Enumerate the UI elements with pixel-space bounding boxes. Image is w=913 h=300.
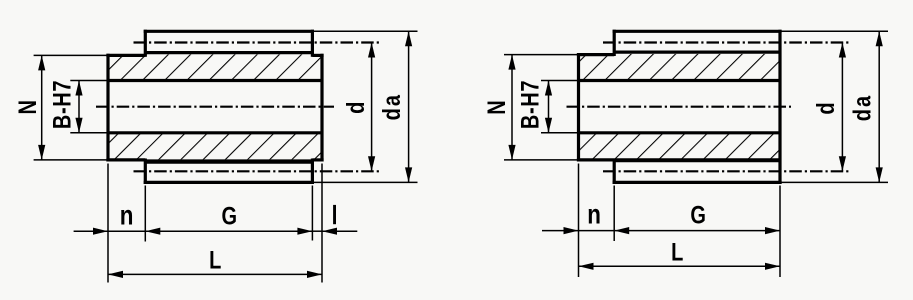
- bore top line: [108, 79, 322, 82]
- svg-text:N: N: [14, 100, 42, 114]
- reference line d top right: [603, 41, 851, 43]
- rim bottom band tip line right: [613, 181, 782, 184]
- extension line G and L right right: [779, 186, 781, 278]
- rim top band left edge: [144, 30, 147, 57]
- label B-H7: [48, 80, 76, 129]
- dimension line d right: [839, 43, 846, 172]
- label da: [378, 93, 406, 120]
- svg-text:G: G: [690, 201, 706, 229]
- reference line d bottom: [134, 170, 382, 172]
- gear right end face right: [778, 30, 781, 184]
- dimension line L right: [579, 263, 781, 270]
- rim top band root line right: [614, 50, 780, 53]
- label n right: [587, 199, 601, 230]
- hub outer surface top segment right: [577, 53, 614, 56]
- rim top band right edge: [311, 30, 314, 57]
- label B-H7 right: [516, 80, 544, 129]
- extension line N top: [34, 54, 108, 56]
- extension line da bottom: [312, 181, 417, 183]
- svg-text:N: N: [483, 100, 511, 114]
- hub outer surface top left segment: [106, 54, 145, 57]
- extension line N bottom right: [504, 159, 579, 161]
- hub bottom hatched section: [108, 134, 322, 159]
- hub left end face: [106, 54, 109, 162]
- rim bottom band root line right: [614, 158, 780, 162]
- reference line d top: [134, 41, 382, 43]
- rim bottom band right edge: [311, 159, 314, 185]
- svg-text:da: da: [378, 93, 406, 120]
- dimension line d: [368, 43, 375, 172]
- hub outer surface top right segment: [312, 54, 323, 57]
- label l: [333, 205, 336, 224]
- label L right: [671, 238, 683, 266]
- rim bottom band root line: [145, 159, 312, 163]
- extension line B-H7 top: [70, 80, 108, 82]
- svg-text:B-H7: B-H7: [516, 80, 544, 129]
- hub outer surface bottom segment right: [577, 158, 614, 161]
- hub bottom hatched section right: [579, 134, 781, 159]
- label N right: [483, 100, 511, 114]
- bore top line right: [579, 79, 781, 82]
- svg-text:n: n: [120, 200, 134, 231]
- svg-text:d: d: [342, 102, 370, 114]
- svg-text:G: G: [222, 202, 238, 230]
- rim bottom band left edge: [144, 159, 147, 185]
- bore bottom line: [108, 131, 322, 134]
- svg-text:L: L: [671, 238, 683, 266]
- extension line da top: [312, 30, 417, 32]
- label L: [209, 247, 221, 275]
- extension line L right: [321, 164, 323, 283]
- hub top hatched section: [108, 54, 322, 79]
- dimension line L: [108, 271, 322, 278]
- svg-text:da: da: [849, 94, 877, 121]
- extension line B-H7 bottom: [70, 132, 108, 134]
- rim top band left edge right: [613, 30, 616, 56]
- label G: [222, 202, 238, 230]
- extension line G right: [311, 186, 313, 241]
- rim top band root line: [145, 51, 312, 54]
- label N: [14, 100, 42, 114]
- dimension line B-H7 right: [545, 81, 552, 133]
- dimension line da right: [876, 31, 883, 182]
- extension line L left: [107, 164, 109, 283]
- svg-text:L: L: [209, 247, 221, 275]
- rim top band tip line right: [613, 30, 782, 33]
- hub left end face right: [577, 53, 580, 162]
- svg-text:d: d: [812, 102, 840, 114]
- extension line N top right: [504, 54, 579, 56]
- hub right end face: [320, 54, 323, 162]
- dimension line N: [38, 55, 45, 159]
- hub top hatched section right: [579, 54, 781, 79]
- dimension line da: [405, 31, 412, 182]
- rim bottom band left edge right: [613, 159, 616, 185]
- label d right: [812, 102, 840, 114]
- extension line B-H7 bottom right: [541, 132, 579, 134]
- svg-text:B-H7: B-H7: [48, 80, 76, 129]
- hub outer surface bottom left segment: [106, 158, 145, 161]
- label n: [120, 200, 134, 231]
- rim top band tip line: [144, 30, 314, 33]
- extension line B-H7 top right: [541, 80, 579, 82]
- svg-text:n: n: [587, 199, 601, 230]
- extension line G left: [144, 186, 146, 242]
- hub outer surface bottom right segment: [312, 158, 323, 161]
- dimension line N right: [508, 55, 515, 160]
- extension line N bottom: [34, 159, 108, 161]
- rim bottom band tip line: [144, 181, 314, 184]
- extension line L left right: [578, 164, 580, 278]
- dimension row n G right: [542, 227, 780, 234]
- centerline axis right: [567, 106, 792, 108]
- bore bottom line right: [579, 131, 781, 134]
- extension line da bottom right: [780, 181, 888, 183]
- label G right: [690, 201, 706, 229]
- centerline axis: [96, 106, 334, 108]
- dimension row n G l: [74, 228, 358, 235]
- extension line G left right: [613, 186, 615, 242]
- reference line d bottom right: [603, 170, 851, 172]
- label da right: [849, 94, 877, 121]
- label d: [342, 102, 370, 114]
- dimension line B-H7: [75, 81, 82, 133]
- extension line da top right: [780, 30, 888, 32]
